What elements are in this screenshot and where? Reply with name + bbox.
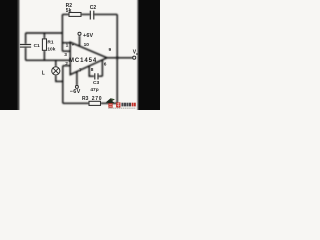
svg-text:MC1454: MC1454 <box>69 58 97 64</box>
logo microtext <box>108 107 136 109</box>
svg-text:C1: C1 <box>34 43 40 49</box>
svg-text:7: 7 <box>79 67 82 73</box>
logo dark char row <box>121 103 123 107</box>
lamp L circle <box>52 67 60 75</box>
resistor R1 box <box>42 39 46 50</box>
svg-text:R1: R1 <box>47 40 53 46</box>
terminal Vo circle <box>133 56 136 59</box>
svg-text:8: 8 <box>91 67 94 73</box>
pin 10 wire <box>79 36 81 47</box>
right black band <box>136 0 160 110</box>
logo cursor arrow <box>106 98 115 103</box>
wire input top horizontal <box>26 32 63 34</box>
terminal -6V circle <box>75 85 78 88</box>
resistor R3 box <box>89 101 101 105</box>
wire top feedback horizontal <box>62 13 117 15</box>
wire lower horizontal <box>26 59 71 61</box>
capacitor C1 plates <box>20 45 31 48</box>
svg-text:−6V: −6V <box>70 89 81 95</box>
wire node A vertical <box>61 14 63 51</box>
svg-text:6: 6 <box>104 62 107 68</box>
wire feedback vertical right <box>116 14 118 103</box>
svg-text:C3: C3 <box>93 80 99 86</box>
svg-text:47p: 47p <box>90 87 98 93</box>
terminal +6V circle <box>78 32 81 35</box>
svg-text:2: 2 <box>65 61 68 67</box>
svg-text:3: 3 <box>64 52 67 58</box>
svg-text:270: 270 <box>92 96 102 102</box>
logo red char 1 <box>108 103 112 108</box>
svg-text:10k: 10k <box>47 46 55 52</box>
svg-text:1: 1 <box>66 42 69 48</box>
wire lamp return <box>56 75 63 81</box>
resistor R2 box <box>69 13 81 17</box>
wire R1 leads <box>43 33 45 60</box>
svg-text:10: 10 <box>84 42 90 48</box>
op-amp U1 triangle <box>70 42 107 74</box>
watermark logo <box>106 98 136 108</box>
node junction dot <box>116 56 119 59</box>
pin 6 wire <box>98 60 102 76</box>
logo red char 2 <box>116 102 120 107</box>
svg-text:+6V: +6V <box>83 33 94 39</box>
wire lamp top lead <box>55 60 57 66</box>
wire C1 leads <box>25 33 27 60</box>
svg-text:+: + <box>72 42 75 47</box>
svg-text:L: L <box>42 70 45 76</box>
capacitor C2 plates <box>90 11 94 20</box>
svg-text:R3: R3 <box>82 96 89 102</box>
logo red char small <box>132 103 134 107</box>
wire pin2 drop vertical <box>62 66 64 104</box>
wire bottom rail <box>63 102 117 104</box>
svg-text:o: o <box>136 52 138 56</box>
pin 7 wire <box>76 72 78 86</box>
wire pin 3 <box>62 50 70 52</box>
wire output <box>107 57 133 59</box>
svg-text:C2: C2 <box>90 5 97 11</box>
svg-text:5k: 5k <box>66 8 72 14</box>
svg-text:9: 9 <box>109 47 112 53</box>
wire pin 1 <box>62 42 70 44</box>
pin 8 wire <box>89 66 94 76</box>
wire pin 2 <box>63 65 70 67</box>
left black band <box>0 0 20 110</box>
lamp L cross <box>53 68 59 74</box>
capacitor C3 plates <box>95 73 98 79</box>
